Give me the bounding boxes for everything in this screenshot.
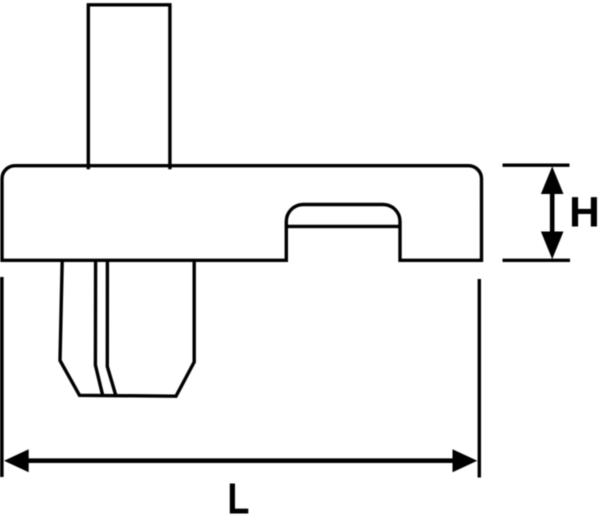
dimension L arrowhead right (453, 449, 478, 472)
notch inner edge line (288, 225, 399, 228)
svg-text:L: L (227, 474, 249, 523)
leg slit line left (95, 261, 102, 394)
dimension L arrow shaft (26, 458, 454, 463)
flange body outline with bottom notch (2, 166, 482, 261)
dimension H extension line top (503, 163, 570, 166)
dimension H arrow shaft (550, 191, 555, 234)
dimension L extension line left (0, 277, 4, 477)
svg-text:H: H (569, 190, 600, 237)
dimension L arrowhead left (4, 449, 29, 472)
top post (plunger) outline (88, 5, 170, 168)
dimension L extension line right (478, 279, 481, 478)
dimension H extension line bottom (503, 259, 571, 262)
dimension H arrowhead up (541, 166, 564, 194)
snap leg outline (60, 261, 194, 396)
dimension H arrowhead down (541, 232, 564, 260)
leg slit line right (107, 261, 116, 395)
